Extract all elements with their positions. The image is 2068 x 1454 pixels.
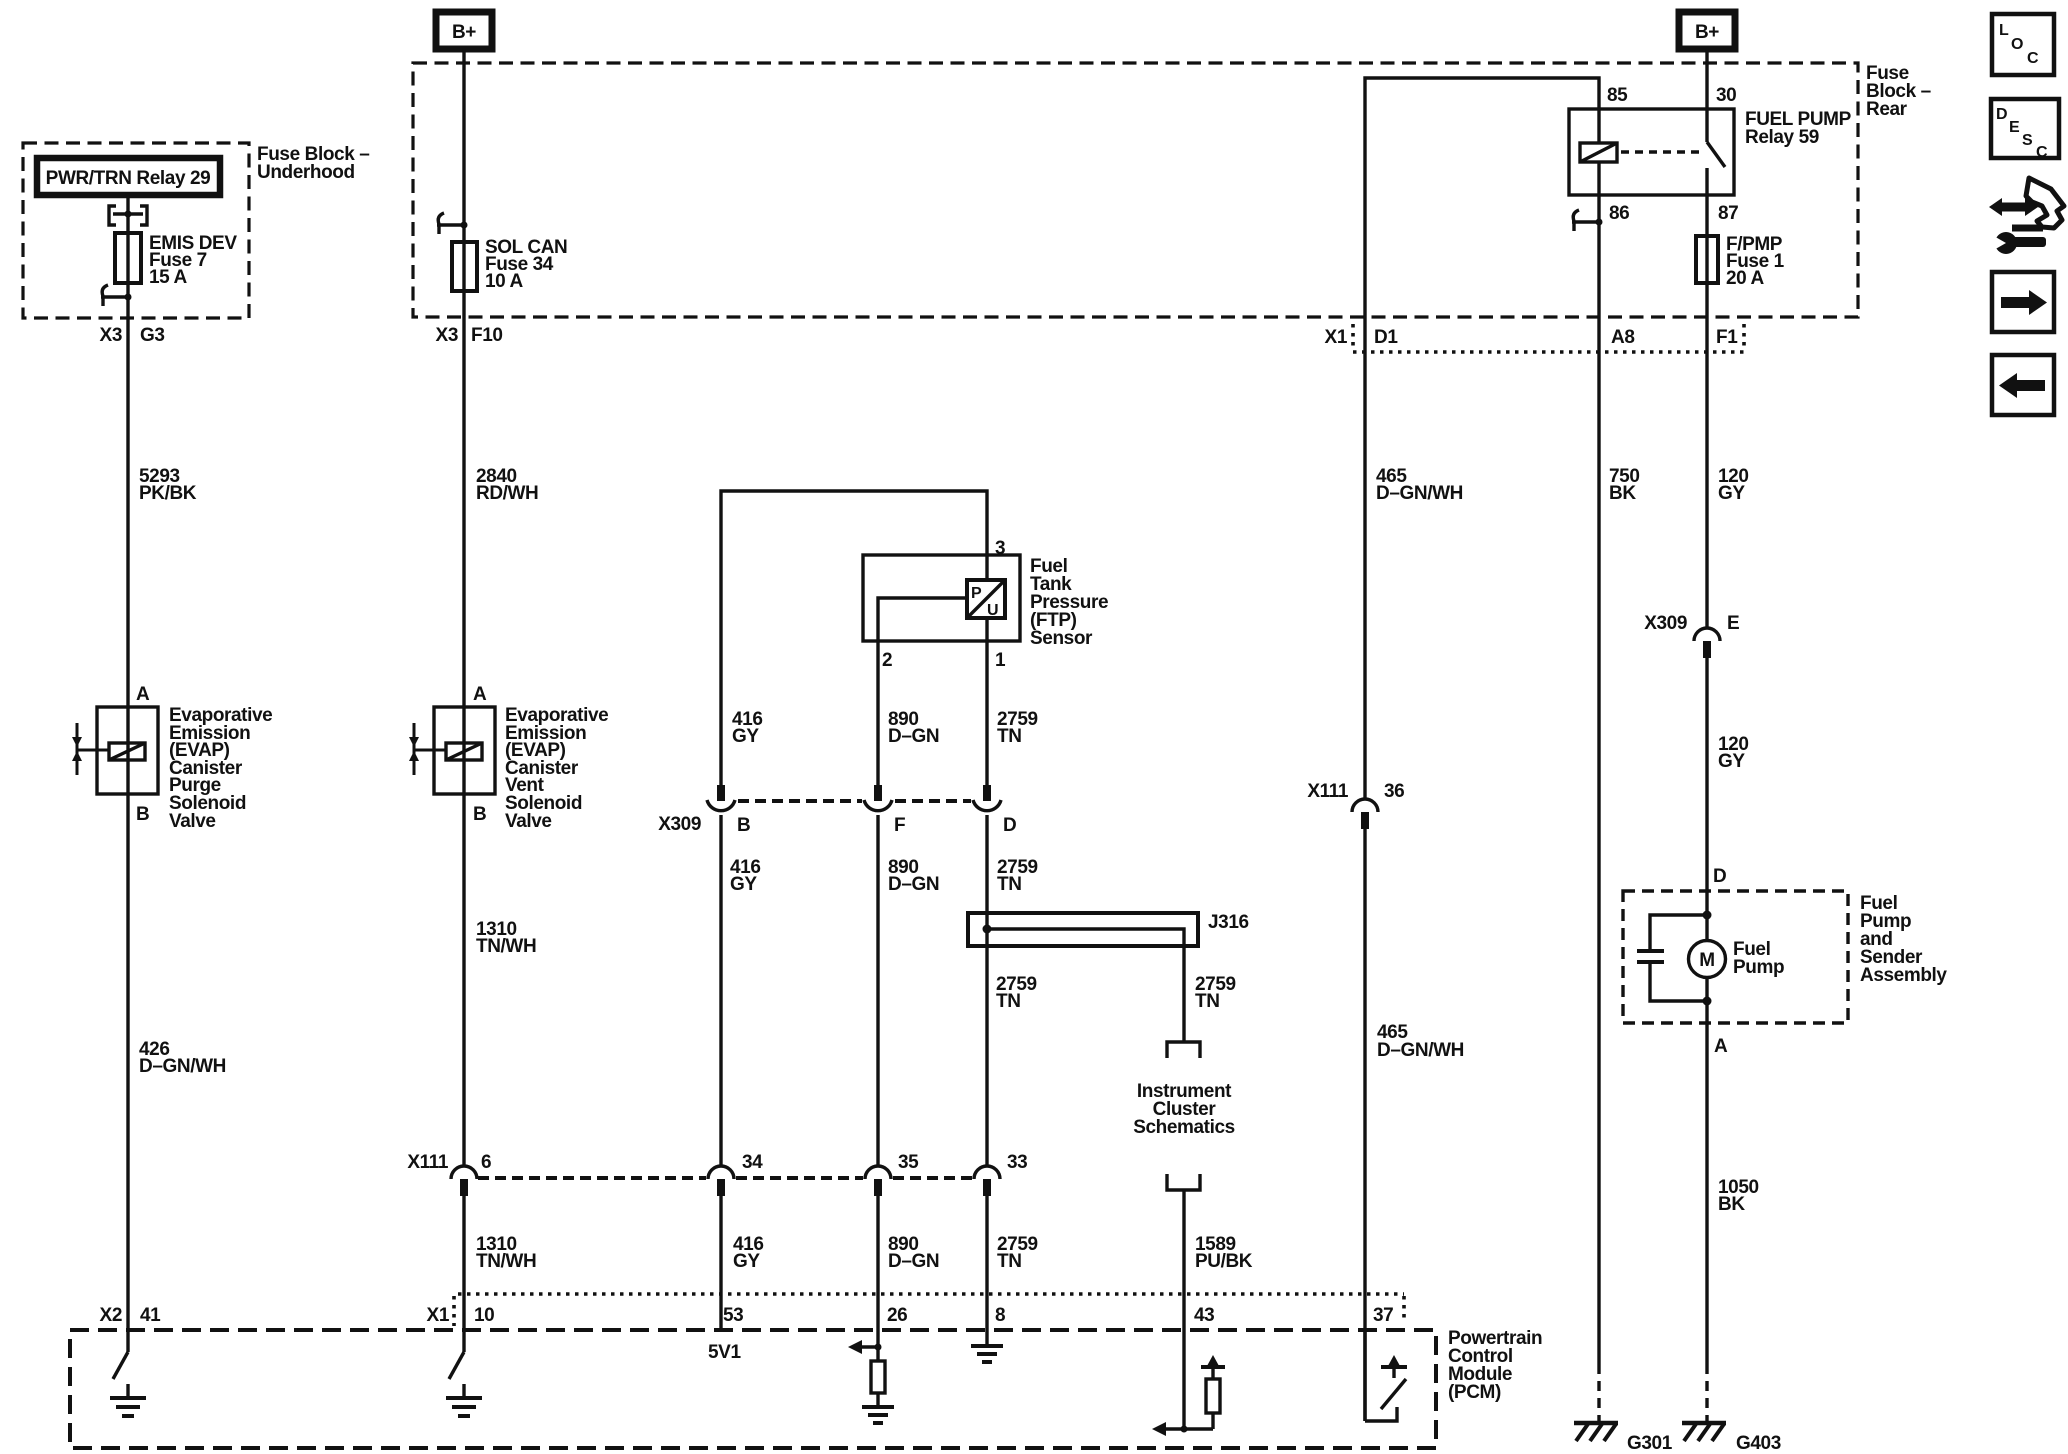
wire label 890 D-GN (bottom): [888, 1234, 939, 1272]
PCM internal switch (pin 41): [113, 1352, 128, 1379]
wire 2759 TN below X309: [985, 815, 988, 1166]
label instrument cluster schematics: [1133, 1081, 1235, 1138]
connector X3 G3: [100, 325, 165, 346]
connector X309 row (B F D): [658, 785, 1016, 836]
wire 1589 PU/BK: [1182, 1190, 1185, 1330]
wire FTP pin 1 branch: [985, 618, 988, 785]
relay coil: [1580, 109, 1617, 195]
svg-text:PK/BK: PK/BK: [139, 483, 197, 504]
svg-text:5V1: 5V1: [708, 1342, 741, 1363]
wire B+ to relay 30: [1705, 49, 1708, 142]
wire label 2759 TN: [997, 709, 1038, 747]
wire left column (5293 / 426 circuit): [126, 195, 129, 1352]
fuel pump and sender assembly dashed box: [1623, 891, 1947, 1023]
svg-text:20 A: 20 A: [1726, 268, 1765, 289]
wire label 2759 TN (bottom): [997, 1234, 1038, 1272]
svg-text:Schematics: Schematics: [1133, 1117, 1235, 1138]
svg-text:D–GN/WH: D–GN/WH: [1377, 1040, 1464, 1061]
connector X111 terminal 36: [1307, 781, 1404, 829]
wire 120 GY from fuse: [1705, 236, 1708, 628]
ground (PCM pin 10): [446, 1384, 482, 1416]
svg-text:PU/BK: PU/BK: [1195, 1251, 1253, 1272]
fuse block rear dashed box: [413, 63, 1858, 317]
svg-text:G403: G403: [1736, 1433, 1781, 1454]
wire label 5293 PK/BK: [139, 466, 197, 504]
wire 120 GY lower: [1705, 658, 1708, 1364]
svg-text:G301: G301: [1627, 1433, 1673, 1454]
svg-text:X309: X309: [1644, 613, 1687, 634]
svg-text:X111: X111: [1307, 781, 1349, 802]
icon double-arrow with wrench: [1989, 178, 2064, 254]
svg-text:D–GN/WH: D–GN/WH: [139, 1056, 226, 1077]
svg-text:GY: GY: [1718, 751, 1745, 772]
fuse EMIS DEV Fuse 7 15 A: [115, 233, 237, 288]
svg-text:O: O: [2011, 36, 2023, 53]
svg-text:TN: TN: [996, 991, 1021, 1012]
svg-text:8: 8: [995, 1305, 1005, 1326]
splice J316: [968, 912, 1249, 1042]
svg-text:L: L: [1999, 22, 2009, 39]
svg-text:41: 41: [140, 1305, 161, 1326]
wire relay 85 feed (465 circuit): [1365, 78, 1599, 799]
wire label 416 GY (below row): [730, 857, 761, 895]
off-page bracket (from instrument cluster): [1167, 1174, 1200, 1190]
PCM sense network (pin 43): [1152, 1330, 1213, 1436]
svg-text:GY: GY: [732, 726, 759, 747]
ground (PCM pin 8): [971, 1346, 1003, 1362]
svg-text:Assembly: Assembly: [1860, 965, 1947, 986]
svg-text:X1: X1: [427, 1305, 450, 1326]
svg-text:Rear: Rear: [1866, 99, 1908, 120]
svg-text:D–GN: D–GN: [888, 726, 939, 747]
PCM internal switch (pin 10): [449, 1352, 464, 1379]
relay switch contact: [1707, 142, 1725, 236]
wire label 890 D-GN (below row): [888, 857, 939, 895]
svg-text:10 A: 10 A: [485, 271, 524, 292]
svg-text:X2: X2: [100, 1305, 122, 1326]
svg-text:1: 1: [995, 650, 1006, 671]
icon arrow right box: [1992, 272, 2054, 332]
wire 5V reference top run: [721, 491, 987, 785]
wire label 416 GY: [732, 709, 763, 747]
connector X1 row (PCM top): [427, 1294, 1404, 1326]
connector X111 terminal 6: [407, 1152, 491, 1196]
wire label 2759 TN (right of J316): [1195, 974, 1236, 1012]
motor fuel pump M: [1689, 939, 1785, 978]
wire label 416 GY (bottom): [733, 1234, 764, 1272]
connector X2 41: [100, 1305, 162, 1326]
svg-text:6: 6: [481, 1152, 491, 1173]
wire below X111-6: [462, 1196, 465, 1352]
fuse SOL CAN Fuse 34 10 A: [452, 237, 567, 292]
svg-text:D: D: [1713, 866, 1726, 887]
svg-text:J316: J316: [1208, 912, 1249, 933]
svg-text:BK: BK: [1609, 483, 1636, 504]
wire SOL CAN circuit vertical: [462, 49, 465, 1166]
svg-text:P: P: [971, 585, 982, 602]
svg-text:G3: G3: [140, 325, 165, 346]
svg-text:87: 87: [1718, 203, 1738, 224]
EVAP canister purge solenoid valve: [72, 705, 272, 832]
svg-text:36: 36: [1384, 781, 1404, 802]
wire 1050 BK dashed tail: [1705, 1364, 1708, 1421]
svg-text:53: 53: [723, 1305, 743, 1326]
svg-text:Valve: Valve: [169, 811, 216, 832]
PCM driver switch (pin 37): [1365, 1330, 1407, 1421]
svg-text:A: A: [473, 684, 487, 705]
svg-text:GY: GY: [730, 874, 757, 895]
svg-text:Pump: Pump: [1733, 957, 1784, 978]
svg-text:E: E: [1727, 613, 1739, 634]
icon DESC box: [1991, 99, 2059, 161]
wire label 120 GY: [1718, 466, 1749, 504]
wire label 465 D-GN/WH: [1376, 466, 1463, 504]
svg-text:C: C: [2027, 50, 2039, 67]
wire label 890 D-GN: [888, 709, 939, 747]
svg-text:26: 26: [887, 1305, 907, 1326]
fuse block terminal hook: [437, 213, 468, 234]
svg-text:Valve: Valve: [505, 811, 552, 832]
FTP pressure transducer P/U element: [967, 580, 1005, 619]
connector X309 terminal E: [1644, 613, 1739, 658]
svg-text:D: D: [1996, 106, 2008, 123]
svg-text:GY: GY: [733, 1251, 760, 1272]
svg-text:D–GN/WH: D–GN/WH: [1376, 483, 1463, 504]
svg-text:B: B: [136, 804, 149, 825]
svg-text:D: D: [1003, 815, 1016, 836]
connector X3 F10: [436, 325, 503, 346]
svg-text:GY: GY: [1718, 483, 1745, 504]
connector X111 row (6 34 35 33): [478, 1152, 1027, 1196]
ground (PCM pin 41): [110, 1384, 146, 1416]
relay PWR/TRN Relay 29: [37, 158, 220, 195]
wire label 2759 TN (left of J316): [996, 974, 1037, 1012]
icon arrow left box: [1992, 355, 2054, 415]
svg-text:35: 35: [898, 1152, 919, 1173]
svg-text:TN/WH: TN/WH: [476, 1251, 536, 1272]
ground (PCM pin 26): [862, 1393, 894, 1423]
svg-text:X111: X111: [407, 1152, 449, 1173]
svg-text:F10: F10: [471, 325, 503, 346]
svg-text:F: F: [894, 815, 905, 836]
wire 416 GY below X309: [719, 815, 722, 1166]
resistor (pin 43 pull-up): [1201, 1355, 1225, 1429]
svg-text:43: 43: [1194, 1305, 1214, 1326]
relay coil-contact dashed link: [1621, 150, 1699, 153]
fuse block underhood dashed box: [23, 143, 249, 318]
off-page bracket (to instrument cluster): [1167, 1042, 1200, 1058]
wire 465 D-GN/WH lower: [1363, 829, 1366, 1421]
svg-text:85: 85: [1607, 85, 1628, 106]
resistor (pin 26 pull): [871, 1361, 885, 1393]
connector X1 row (D1 A8 F1): [1325, 324, 1744, 352]
B+ feed (fuel pump relay): [1679, 12, 1735, 49]
wire label 1310 TN/WH (lower): [476, 1234, 536, 1272]
svg-text:B: B: [473, 804, 486, 825]
svg-text:TN/WH: TN/WH: [476, 936, 536, 957]
svg-text:D1: D1: [1374, 327, 1398, 348]
wire label 426 D-GN/WH: [139, 1039, 226, 1077]
capacitor branch: [1637, 911, 1712, 1006]
wire label 2840 RD/WH: [476, 466, 538, 504]
svg-text:TN: TN: [997, 874, 1022, 895]
svg-text:(PCM): (PCM): [1448, 1382, 1501, 1403]
svg-text:PWR/TRN Relay 29: PWR/TRN Relay 29: [46, 168, 211, 189]
wire label 465 D-GN/WH (lower): [1377, 1022, 1464, 1061]
relay FUEL PUMP Relay 59: [1569, 109, 1852, 195]
fuse block terminal bracket: [109, 206, 147, 225]
fuse F/PMP Fuse 1 20 A: [1696, 234, 1785, 289]
FTP sensor box: [863, 555, 1108, 649]
wire label 1050 BK: [1718, 1177, 1759, 1215]
svg-text:BK: BK: [1718, 1194, 1745, 1215]
svg-text:B+: B+: [452, 22, 476, 43]
svg-text:TN: TN: [1195, 991, 1220, 1012]
svg-text:Sensor: Sensor: [1030, 628, 1093, 649]
svg-text:F1: F1: [1716, 327, 1738, 348]
wire label 2759 TN (below row): [997, 857, 1038, 895]
wire relay 86 down: [1597, 195, 1600, 1364]
wire label 1310 TN/WH: [476, 919, 536, 957]
svg-text:S: S: [2022, 132, 2033, 149]
icon LOC box: [1992, 14, 2054, 75]
svg-text:10: 10: [474, 1305, 494, 1326]
svg-text:30: 30: [1716, 85, 1736, 106]
wire 890 D-GN to PCM 26: [876, 1196, 879, 1361]
wire 416 GY to PCM 53: [719, 1196, 722, 1330]
svg-text:A: A: [1714, 1036, 1728, 1057]
svg-text:D–GN: D–GN: [888, 1251, 939, 1272]
svg-text:M: M: [1699, 950, 1714, 971]
wire FTP pin 2 branch: [878, 598, 967, 785]
PCM dashed box: [70, 1330, 1436, 1448]
svg-text:X1: X1: [1325, 327, 1348, 348]
ground G301: [1574, 1423, 1673, 1454]
PCM signal arrow (pin 26): [848, 1340, 882, 1354]
svg-text:TN: TN: [997, 726, 1022, 747]
B+ feed (left, SOL CAN circuit): [436, 12, 492, 49]
EVAP canister vent solenoid valve: [409, 705, 608, 832]
svg-text:34: 34: [742, 1152, 763, 1173]
svg-text:Underhood: Underhood: [257, 162, 355, 183]
svg-text:RD/WH: RD/WH: [476, 483, 538, 504]
svg-text:U: U: [987, 602, 999, 619]
svg-text:A8: A8: [1611, 327, 1635, 348]
svg-text:C: C: [2036, 144, 2048, 161]
wire 890 D-GN below X309: [876, 815, 879, 1166]
svg-text:B+: B+: [1695, 22, 1719, 43]
svg-text:B: B: [737, 815, 750, 836]
svg-text:A: A: [136, 684, 150, 705]
svg-text:X3: X3: [436, 325, 458, 346]
svg-text:37: 37: [1373, 1305, 1393, 1326]
fuse block terminal hook: [101, 285, 132, 306]
wire 750 BK dashed tail: [1597, 1364, 1600, 1421]
fuse block terminal hook (86): [1572, 210, 1603, 231]
svg-text:33: 33: [1007, 1152, 1027, 1173]
svg-text:X3: X3: [100, 325, 122, 346]
wire 2759 TN to PCM 8: [985, 1196, 988, 1344]
svg-text:D–GN: D–GN: [888, 874, 939, 895]
svg-text:X309: X309: [658, 814, 701, 835]
wire label 120 GY (lower): [1718, 734, 1749, 772]
svg-text:TN: TN: [997, 1251, 1022, 1272]
wire label 1589 PU/BK: [1195, 1234, 1253, 1272]
svg-text:E: E: [2009, 119, 2020, 136]
svg-text:15 A: 15 A: [149, 267, 188, 288]
svg-text:2: 2: [882, 650, 892, 671]
svg-text:Relay 59: Relay 59: [1745, 127, 1819, 148]
svg-text:86: 86: [1609, 203, 1629, 224]
wire label 750 BK: [1609, 466, 1640, 504]
ground G403: [1682, 1423, 1781, 1454]
